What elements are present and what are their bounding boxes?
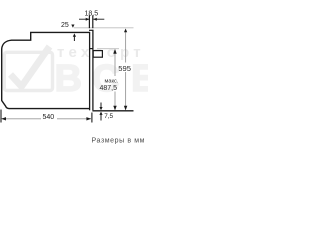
dimension 18,5 line right with arrow (93, 18, 104, 20)
dimension макс 487,5 bottom arrow (113, 106, 116, 111)
door front edge (92, 30, 94, 110)
dimension 25 down arrow (71, 25, 74, 28)
door divider (90, 48, 93, 50)
svg-text:595: 595 (118, 64, 131, 73)
dimension макс 487,5 line (114, 52, 116, 76)
dimension 540 left extension (0, 110, 2, 123)
handle (93, 51, 102, 58)
dimension 7,5 lower arrow (99, 112, 102, 115)
svg-text:Размеры в мм: Размеры в мм (92, 138, 146, 145)
svg-text:540: 540 (43, 114, 55, 121)
dimension 540 line (2, 118, 41, 120)
dimension 18,5 line left with arrow (79, 18, 89, 20)
dimension 595 top arrow (124, 29, 127, 33)
svg-text:487,5: 487,5 (100, 85, 118, 92)
watermark check-square logo (4, 47, 52, 91)
oven body outline (2, 32, 90, 108)
door top cap (89, 29, 94, 31)
dimension 595 bottom arrow (124, 106, 127, 111)
dimension 540 left arrow (1, 117, 6, 120)
door back edge (89, 32, 91, 110)
svg-text:7,5: 7,5 (104, 113, 113, 120)
svg-text:25: 25 (61, 22, 69, 29)
svg-text:18,5: 18,5 (85, 11, 99, 18)
dimension 7,5 upper arrow (100, 103, 102, 108)
bottom extension line (door bottom datum) (92, 110, 133, 112)
dimension макс 487,5 top arrow (113, 49, 116, 54)
svg-text:макс.: макс. (105, 78, 119, 84)
dimension 18,5 ticks (88, 15, 90, 28)
dimension 595 line (125, 32, 127, 63)
dimension 540 right extension (91, 113, 93, 123)
dimension 540 right arrow (86, 117, 91, 120)
mid extension line (handle-level datum) (97, 48, 119, 50)
svg-text:ВСЕ: ВСЕ (55, 58, 149, 100)
top extension line (front-top datum) (74, 27, 134, 29)
dimension 25 up arrow (73, 33, 76, 36)
